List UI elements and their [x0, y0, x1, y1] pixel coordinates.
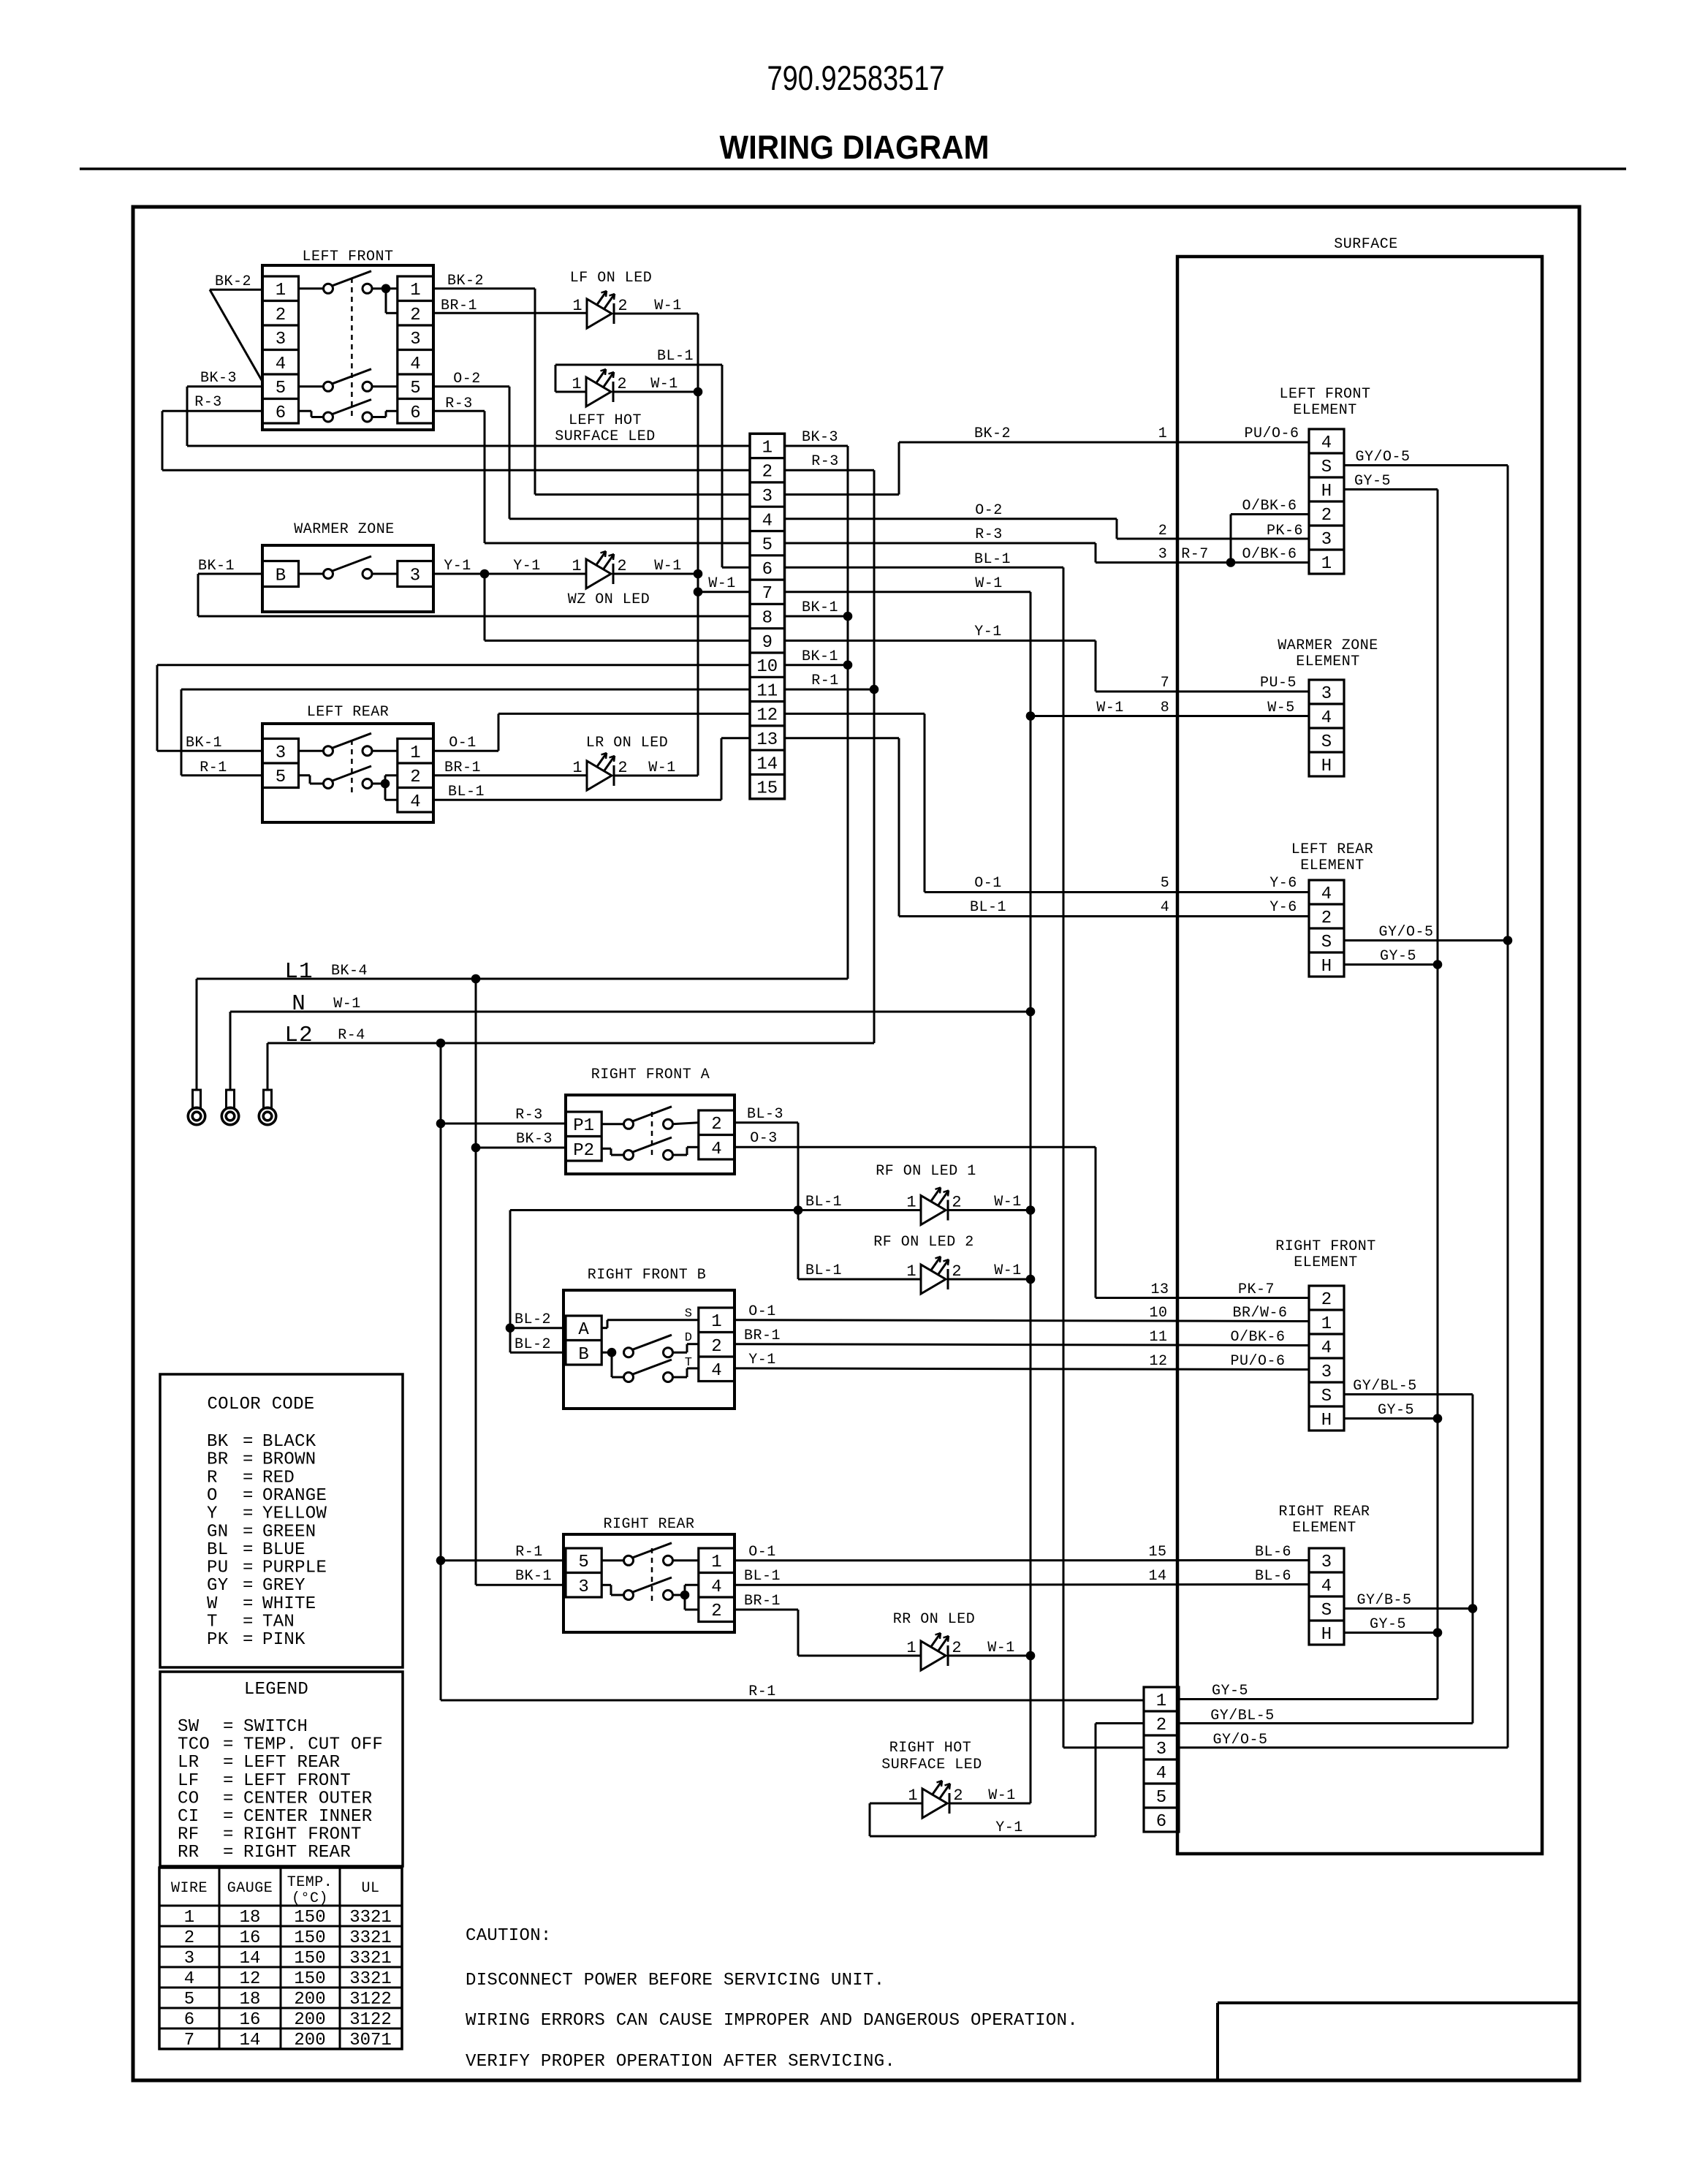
svg-text:BL-1: BL-1 — [974, 551, 1011, 568]
svg-text:RR: RR — [178, 1843, 199, 1863]
svg-text:2: 2 — [617, 557, 626, 575]
svg-text:H: H — [1321, 757, 1332, 776]
svg-text:PU/O-6: PU/O-6 — [1244, 425, 1299, 442]
svg-text:LEFT REAR: LEFT REAR — [307, 704, 390, 721]
svg-text:1: 1 — [572, 375, 581, 393]
svg-text:BR-1: BR-1 — [441, 298, 477, 314]
svg-text:R: R — [207, 1468, 218, 1488]
svg-text:5: 5 — [276, 379, 286, 398]
svg-text:ELEMENT: ELEMENT — [1293, 402, 1357, 419]
svg-text:=: = — [243, 1594, 254, 1614]
svg-text:4: 4 — [1161, 899, 1170, 916]
svg-text:15: 15 — [1148, 1544, 1166, 1561]
svg-text:LEFT REAR: LEFT REAR — [243, 1753, 340, 1773]
svg-text:BK-1: BK-1 — [186, 735, 222, 751]
svg-text:BK-2: BK-2 — [974, 425, 1011, 442]
svg-text:RF ON LED 2: RF ON LED 2 — [873, 1234, 974, 1251]
svg-text:B: B — [276, 567, 286, 586]
svg-text:W-1: W-1 — [648, 759, 676, 776]
svg-text:PK: PK — [207, 1630, 229, 1650]
svg-text:3071: 3071 — [349, 2031, 392, 2050]
svg-text:790.92583517: 790.92583517 — [767, 58, 945, 97]
svg-text:2: 2 — [953, 1787, 963, 1805]
svg-text:H: H — [1321, 1625, 1332, 1645]
svg-text:O-2: O-2 — [975, 502, 1003, 519]
svg-text:5: 5 — [578, 1553, 588, 1572]
svg-text:BR-1: BR-1 — [744, 1593, 781, 1610]
svg-text:3: 3 — [578, 1577, 588, 1597]
svg-text:GY-5: GY-5 — [1212, 1683, 1248, 1700]
svg-text:6: 6 — [410, 403, 420, 423]
svg-text:RR ON LED: RR ON LED — [893, 1611, 976, 1628]
svg-text:RIGHT REAR: RIGHT REAR — [603, 1516, 694, 1533]
svg-text:2: 2 — [618, 759, 627, 777]
svg-text:2: 2 — [1321, 506, 1332, 526]
svg-text:S: S — [1321, 1601, 1332, 1621]
svg-text:14: 14 — [1148, 1568, 1166, 1585]
svg-text:2: 2 — [276, 306, 286, 325]
svg-text:L2: L2 — [284, 1023, 313, 1048]
svg-text:RF ON LED 1: RF ON LED 1 — [876, 1163, 976, 1180]
svg-text:BR: BR — [207, 1450, 228, 1470]
svg-text:R-3: R-3 — [811, 453, 839, 470]
svg-text:=: = — [243, 1630, 254, 1650]
svg-text:WIRING DIAGRAM: WIRING DIAGRAM — [720, 129, 990, 166]
svg-text:RIGHT FRONT: RIGHT FRONT — [243, 1825, 362, 1845]
svg-text:GN: GN — [207, 1522, 228, 1542]
svg-text:ORANGE: ORANGE — [262, 1486, 327, 1506]
svg-text:GY/BL-5: GY/BL-5 — [1210, 1708, 1275, 1724]
svg-text:2: 2 — [952, 1639, 961, 1657]
svg-text:LF: LF — [178, 1771, 199, 1791]
svg-text:LEFT FRONT: LEFT FRONT — [1279, 386, 1370, 403]
svg-text:R-1: R-1 — [200, 759, 227, 776]
svg-text:BROWN: BROWN — [262, 1450, 316, 1470]
svg-text:H: H — [1321, 482, 1332, 501]
svg-text:GY/B-5: GY/B-5 — [1356, 1592, 1411, 1609]
svg-text:=: = — [243, 1468, 254, 1488]
svg-text:200: 200 — [294, 2031, 325, 2050]
svg-text:18: 18 — [240, 1908, 261, 1928]
svg-text:6: 6 — [762, 560, 773, 580]
svg-text:BL-2: BL-2 — [515, 1311, 551, 1328]
svg-text:1: 1 — [711, 1553, 721, 1572]
svg-text:1: 1 — [1158, 425, 1168, 442]
svg-text:SURFACE: SURFACE — [1334, 236, 1398, 253]
svg-text:GY/O-5: GY/O-5 — [1355, 449, 1410, 466]
svg-text:BK-1: BK-1 — [802, 599, 838, 616]
svg-text:RIGHT REAR: RIGHT REAR — [243, 1843, 351, 1863]
svg-text:S: S — [1321, 933, 1332, 952]
svg-text:ELEMENT: ELEMENT — [1300, 857, 1364, 874]
svg-text:4: 4 — [1156, 1764, 1166, 1784]
svg-text:3321: 3321 — [349, 1908, 392, 1928]
svg-text:W-1: W-1 — [994, 1262, 1022, 1279]
svg-text:CAUTION:: CAUTION: — [466, 1926, 552, 1946]
svg-text:2: 2 — [410, 768, 420, 787]
svg-text:GY-5: GY-5 — [1380, 948, 1416, 965]
svg-text:5: 5 — [1161, 875, 1170, 892]
svg-text:6: 6 — [184, 2010, 194, 2030]
svg-text:14: 14 — [756, 754, 778, 774]
svg-text:3: 3 — [1321, 1363, 1332, 1382]
svg-text:=: = — [243, 1432, 254, 1452]
svg-text:7: 7 — [762, 584, 773, 604]
svg-text:4: 4 — [711, 1361, 721, 1381]
svg-text:PU: PU — [207, 1558, 228, 1578]
svg-text:T: T — [685, 1356, 692, 1370]
svg-text:BR-1: BR-1 — [744, 1327, 781, 1344]
svg-text:CENTER INNER: CENTER INNER — [243, 1807, 372, 1827]
svg-text:W-1: W-1 — [333, 996, 361, 1012]
svg-text:W-5: W-5 — [1267, 700, 1295, 716]
svg-text:W-1: W-1 — [1096, 700, 1124, 716]
svg-text:4: 4 — [1321, 1577, 1332, 1596]
svg-text:=: = — [243, 1613, 254, 1632]
svg-text:WARMER ZONE: WARMER ZONE — [1278, 637, 1378, 654]
svg-text:8: 8 — [762, 609, 773, 629]
svg-text:BK-3: BK-3 — [200, 370, 237, 387]
svg-text:P1: P1 — [573, 1116, 594, 1136]
svg-text:=: = — [243, 1540, 254, 1560]
svg-text:2: 2 — [762, 463, 773, 482]
svg-text:3: 3 — [1321, 530, 1332, 550]
svg-text:10: 10 — [756, 657, 778, 677]
svg-text:UL: UL — [361, 1880, 379, 1897]
svg-text:1: 1 — [410, 743, 420, 763]
svg-text:1: 1 — [184, 1908, 194, 1928]
svg-text:H: H — [1321, 957, 1332, 977]
svg-text:=: = — [243, 1522, 254, 1542]
svg-text:=: = — [243, 1486, 254, 1506]
svg-text:RF: RF — [178, 1825, 199, 1845]
svg-text:ELEMENT: ELEMENT — [1294, 1254, 1358, 1271]
svg-text:PINK: PINK — [262, 1630, 305, 1650]
svg-text:B: B — [578, 1345, 588, 1365]
svg-text:BR-1: BR-1 — [444, 759, 481, 776]
svg-text:BK-1: BK-1 — [802, 648, 838, 665]
svg-text:SURFACE LED: SURFACE LED — [555, 428, 656, 445]
svg-text:LR: LR — [178, 1753, 199, 1773]
svg-text:O-1: O-1 — [974, 875, 1002, 892]
svg-text:DISCONNECT POWER BEFORE SERVIC: DISCONNECT POWER BEFORE SERVICING UNIT. — [466, 1971, 884, 1990]
svg-text:R-1: R-1 — [515, 1544, 543, 1561]
svg-text:Y-6: Y-6 — [1269, 875, 1297, 892]
svg-text:GY-5: GY-5 — [1378, 1402, 1414, 1419]
svg-text:1: 1 — [276, 281, 286, 300]
svg-text:GY-5: GY-5 — [1354, 473, 1391, 490]
svg-text:PK-6: PK-6 — [1267, 523, 1303, 539]
svg-text:11: 11 — [756, 681, 778, 701]
svg-text:PU-5: PU-5 — [1260, 675, 1297, 692]
svg-text:TEMP.: TEMP. — [287, 1874, 333, 1891]
svg-text:WARMER ZONE: WARMER ZONE — [294, 521, 395, 538]
svg-text:=: = — [223, 1717, 234, 1737]
svg-text:BLUE: BLUE — [262, 1540, 305, 1560]
svg-text:BL-1: BL-1 — [805, 1194, 842, 1210]
svg-text:4: 4 — [410, 355, 420, 374]
svg-text:4: 4 — [1321, 708, 1332, 728]
svg-text:CI: CI — [178, 1807, 199, 1827]
svg-text:BL-3: BL-3 — [747, 1106, 783, 1123]
svg-text:5: 5 — [184, 1990, 194, 2009]
svg-text:Y-1: Y-1 — [974, 624, 1002, 640]
svg-text:W-1: W-1 — [987, 1640, 1015, 1656]
svg-text:4: 4 — [711, 1577, 721, 1597]
svg-text:RIGHT HOT: RIGHT HOT — [889, 1740, 972, 1757]
svg-text:=: = — [243, 1504, 254, 1524]
svg-text:BL-6: BL-6 — [1255, 1544, 1291, 1561]
svg-text:BL-1: BL-1 — [448, 784, 485, 800]
svg-text:12: 12 — [1149, 1353, 1167, 1370]
svg-text:R-1: R-1 — [811, 672, 839, 689]
svg-text:LF ON LED: LF ON LED — [570, 270, 653, 287]
svg-text:1: 1 — [906, 1639, 916, 1657]
svg-text:8: 8 — [1161, 700, 1170, 716]
svg-text:1: 1 — [572, 557, 581, 575]
svg-text:BK: BK — [207, 1432, 229, 1452]
svg-text:L1: L1 — [284, 959, 313, 985]
svg-text:3: 3 — [410, 567, 420, 586]
svg-text:GY/O-5: GY/O-5 — [1378, 924, 1433, 941]
svg-text:Y-1: Y-1 — [748, 1352, 776, 1368]
svg-text:4: 4 — [276, 355, 286, 374]
svg-text:WHITE: WHITE — [262, 1594, 316, 1614]
svg-text:BR/W-6: BR/W-6 — [1232, 1305, 1287, 1322]
svg-text:3321: 3321 — [349, 1949, 392, 1969]
svg-text:2: 2 — [711, 1602, 721, 1621]
svg-text:Y-1: Y-1 — [513, 558, 541, 575]
svg-text:Y-1: Y-1 — [444, 558, 471, 575]
svg-text:2: 2 — [1321, 1290, 1332, 1310]
svg-text:4: 4 — [410, 792, 420, 812]
svg-text:H: H — [1321, 1411, 1332, 1431]
svg-text:BL-1: BL-1 — [657, 348, 694, 365]
svg-text:150: 150 — [294, 1969, 325, 1989]
svg-text:RED: RED — [262, 1468, 295, 1488]
svg-text:GY/BL-5: GY/BL-5 — [1353, 1378, 1417, 1395]
svg-text:RIGHT FRONT A: RIGHT FRONT A — [591, 1066, 710, 1083]
svg-text:VERIFY PROPER OPERATION AFTER: VERIFY PROPER OPERATION AFTER SERVICING. — [466, 2052, 895, 2072]
svg-text:150: 150 — [294, 1949, 325, 1969]
svg-text:3: 3 — [1156, 1740, 1166, 1759]
svg-text:15: 15 — [756, 779, 778, 799]
svg-text:1: 1 — [908, 1787, 917, 1805]
svg-text:3: 3 — [276, 743, 286, 763]
svg-text:3321: 3321 — [349, 1969, 392, 1989]
svg-text:1: 1 — [1156, 1691, 1166, 1711]
svg-text:SWITCH: SWITCH — [243, 1717, 308, 1737]
svg-text:6: 6 — [276, 403, 286, 423]
svg-text:3: 3 — [1321, 684, 1332, 704]
svg-text:3: 3 — [410, 330, 420, 349]
svg-text:1: 1 — [1321, 1314, 1332, 1334]
svg-text:3: 3 — [1321, 1553, 1332, 1572]
svg-text:S: S — [1321, 1387, 1332, 1406]
svg-text:R-7: R-7 — [1181, 546, 1209, 563]
svg-text:BL-6: BL-6 — [1255, 1568, 1291, 1585]
svg-text:R-3: R-3 — [975, 526, 1003, 543]
svg-text:PK-7: PK-7 — [1238, 1281, 1275, 1298]
svg-text:1: 1 — [762, 438, 773, 458]
svg-text:3122: 3122 — [349, 1990, 392, 2009]
svg-text:13: 13 — [1150, 1281, 1169, 1298]
svg-text:5: 5 — [410, 379, 420, 398]
svg-text:1: 1 — [906, 1262, 916, 1281]
svg-text:WIRING ERRORS CAN CAUSE IMPROP: WIRING ERRORS CAN CAUSE IMPROPER AND DAN… — [466, 2011, 1078, 2031]
svg-text:O-1: O-1 — [748, 1544, 776, 1561]
svg-text:O-1: O-1 — [449, 735, 477, 751]
svg-text:6: 6 — [1156, 1812, 1166, 1832]
svg-text:1: 1 — [1321, 554, 1332, 574]
svg-text:CO: CO — [178, 1789, 199, 1808]
svg-text:BK-1: BK-1 — [198, 558, 235, 575]
svg-text:4: 4 — [1321, 1338, 1332, 1358]
svg-text:ELEMENT: ELEMENT — [1292, 1520, 1356, 1537]
svg-text:14: 14 — [240, 1949, 261, 1969]
svg-text:R-3: R-3 — [445, 395, 473, 412]
svg-text:9: 9 — [762, 633, 773, 653]
svg-text:R-4: R-4 — [338, 1027, 365, 1044]
svg-text:S: S — [685, 1307, 692, 1321]
svg-text:WZ ON LED: WZ ON LED — [568, 591, 650, 608]
svg-text:2: 2 — [1158, 523, 1168, 539]
svg-text:GY: GY — [207, 1576, 228, 1596]
svg-text:BL-1: BL-1 — [805, 1262, 842, 1279]
svg-text:P2: P2 — [573, 1141, 594, 1161]
svg-text:2: 2 — [1321, 909, 1332, 928]
svg-text:R-3: R-3 — [194, 394, 222, 411]
svg-text:3122: 3122 — [349, 2010, 392, 2030]
svg-text:3321: 3321 — [349, 1928, 392, 1948]
svg-text:4: 4 — [1321, 433, 1332, 453]
svg-text:Y: Y — [207, 1504, 218, 1524]
svg-text:200: 200 — [294, 2010, 325, 2030]
svg-text:GY-5: GY-5 — [1370, 1616, 1406, 1633]
svg-text:2: 2 — [184, 1928, 194, 1948]
svg-text:BLACK: BLACK — [262, 1432, 316, 1452]
svg-text:7: 7 — [1161, 675, 1170, 692]
svg-text:BK-2: BK-2 — [447, 273, 484, 289]
svg-text:5: 5 — [276, 768, 286, 787]
svg-text:O/BK-6: O/BK-6 — [1242, 498, 1297, 515]
svg-text:PU/O-6: PU/O-6 — [1230, 1353, 1285, 1370]
svg-text:S: S — [1321, 732, 1332, 752]
svg-text:150: 150 — [294, 1928, 325, 1948]
svg-text:18: 18 — [240, 1990, 261, 2009]
svg-text:BL-1: BL-1 — [744, 1568, 781, 1585]
svg-text:S: S — [1321, 458, 1332, 477]
svg-text:5: 5 — [762, 536, 773, 556]
svg-text:LEFT FRONT: LEFT FRONT — [243, 1771, 351, 1791]
svg-text:W: W — [207, 1594, 218, 1614]
svg-text:(°C): (°C) — [292, 1890, 328, 1907]
svg-text:11: 11 — [1149, 1329, 1167, 1346]
svg-text:150: 150 — [294, 1908, 325, 1928]
svg-text:W-1: W-1 — [650, 376, 678, 393]
svg-text:T: T — [207, 1613, 218, 1632]
svg-text:O/BK-6: O/BK-6 — [1242, 546, 1297, 563]
svg-text:16: 16 — [240, 2010, 261, 2030]
svg-text:R-3: R-3 — [515, 1107, 543, 1124]
svg-text:2: 2 — [711, 1337, 721, 1357]
svg-text:YELLOW: YELLOW — [262, 1504, 327, 1524]
svg-text:4: 4 — [762, 511, 773, 531]
svg-text:GY/O-5: GY/O-5 — [1212, 1732, 1267, 1748]
svg-text:TEMP. CUT OFF: TEMP. CUT OFF — [243, 1735, 383, 1755]
svg-text:12: 12 — [756, 706, 778, 726]
svg-text:2: 2 — [711, 1115, 721, 1134]
svg-text:O-3: O-3 — [750, 1130, 778, 1147]
svg-text:SURFACE LED: SURFACE LED — [881, 1757, 982, 1773]
svg-text:BL-1: BL-1 — [970, 899, 1006, 916]
svg-text:LEFT FRONT: LEFT FRONT — [302, 249, 393, 265]
svg-text:1: 1 — [711, 1312, 721, 1332]
svg-text:=: = — [223, 1753, 234, 1773]
svg-text:4: 4 — [711, 1140, 721, 1159]
svg-text:CENTER OUTER: CENTER OUTER — [243, 1789, 372, 1808]
svg-text:TCO: TCO — [178, 1735, 210, 1755]
svg-text:=: = — [223, 1789, 234, 1808]
svg-text:4: 4 — [184, 1969, 194, 1989]
svg-text:RIGHT FRONT B: RIGHT FRONT B — [588, 1267, 707, 1284]
svg-text:LEFT HOT: LEFT HOT — [569, 412, 642, 429]
svg-text:RIGHT FRONT: RIGHT FRONT — [1275, 1238, 1376, 1255]
svg-text:=: = — [223, 1735, 234, 1755]
svg-text:=: = — [223, 1807, 234, 1827]
svg-text:D: D — [685, 1331, 692, 1345]
svg-text:=: = — [243, 1558, 254, 1578]
svg-text:=: = — [223, 1771, 234, 1791]
svg-text:BK-4: BK-4 — [331, 963, 368, 980]
svg-text:TAN: TAN — [262, 1613, 295, 1632]
svg-text:O-1: O-1 — [748, 1303, 776, 1320]
svg-text:3: 3 — [276, 330, 286, 349]
svg-text:2: 2 — [617, 375, 626, 393]
svg-text:RIGHT REAR: RIGHT REAR — [1278, 1504, 1370, 1520]
svg-text:=: = — [243, 1450, 254, 1470]
svg-text:2: 2 — [952, 1194, 961, 1212]
svg-text:Y-1: Y-1 — [995, 1819, 1023, 1836]
svg-text:3: 3 — [762, 487, 773, 507]
svg-text:W-1: W-1 — [988, 1787, 1016, 1804]
svg-text:3: 3 — [1158, 546, 1168, 563]
svg-text:BL: BL — [207, 1540, 228, 1560]
svg-text:GREEN: GREEN — [262, 1522, 316, 1542]
svg-text:1: 1 — [906, 1194, 916, 1212]
svg-text:R-1: R-1 — [748, 1683, 776, 1700]
svg-text:2: 2 — [1156, 1716, 1166, 1735]
svg-text:2: 2 — [410, 306, 420, 325]
svg-text:PURPLE: PURPLE — [262, 1558, 327, 1578]
svg-text:Y-6: Y-6 — [1269, 899, 1297, 916]
svg-text:=: = — [223, 1825, 234, 1845]
svg-text:5: 5 — [1156, 1788, 1166, 1808]
svg-text:14: 14 — [240, 2031, 261, 2050]
svg-text:SW: SW — [178, 1717, 200, 1737]
svg-text:2: 2 — [952, 1262, 961, 1281]
svg-text:BL-2: BL-2 — [515, 1336, 551, 1353]
svg-text:16: 16 — [240, 1928, 261, 1948]
svg-text:BK-2: BK-2 — [215, 273, 251, 290]
svg-text:3: 3 — [184, 1949, 194, 1969]
svg-text:LEFT REAR: LEFT REAR — [1291, 841, 1374, 858]
svg-text:=: = — [223, 1843, 234, 1863]
svg-text:W-1: W-1 — [654, 298, 682, 314]
svg-text:O: O — [207, 1486, 218, 1506]
svg-text:W-1: W-1 — [975, 575, 1003, 592]
svg-text:BK-3: BK-3 — [802, 429, 838, 446]
